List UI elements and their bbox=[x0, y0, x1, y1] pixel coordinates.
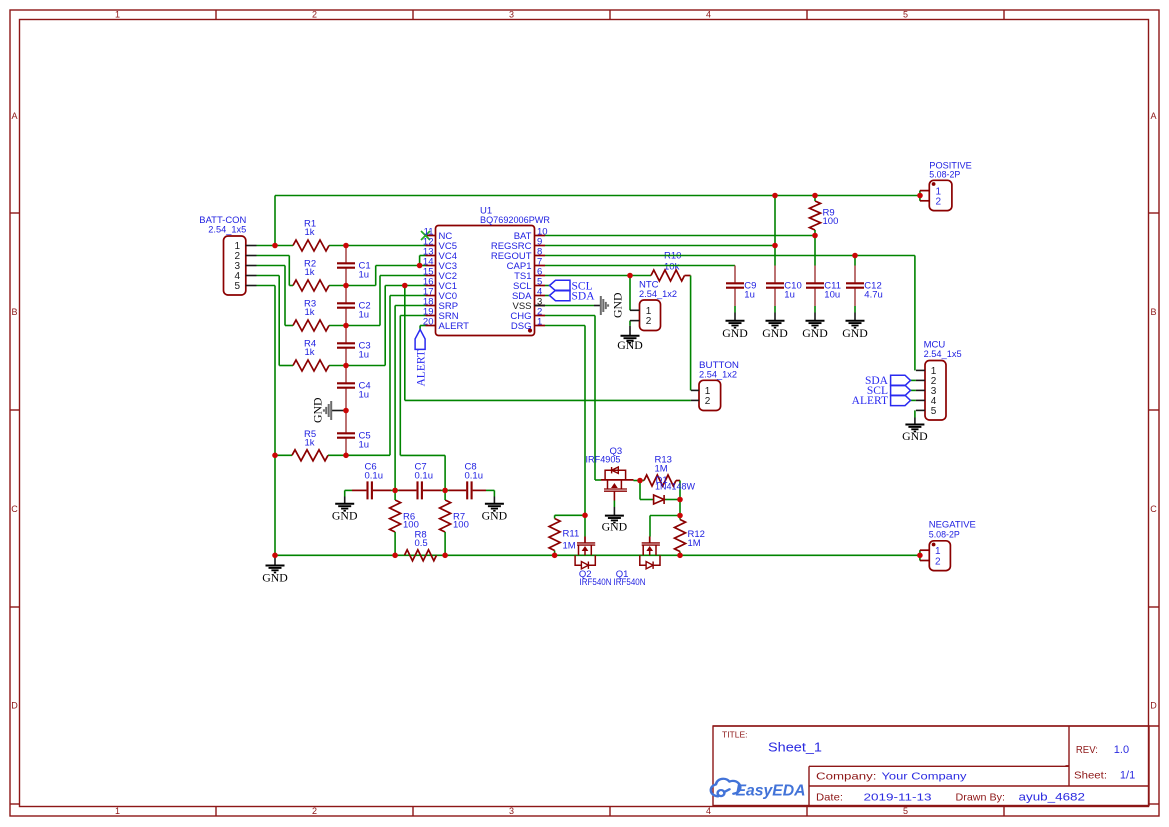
svg-text:IRF540N: IRF540N bbox=[614, 577, 646, 588]
svg-text:B: B bbox=[1150, 307, 1156, 317]
net flag SDA (MCU pin2) bbox=[911, 379, 916, 381]
wire: NTC pin2 to GND bbox=[629, 321, 631, 326]
resistor R7 100 bbox=[440, 500, 451, 532]
svg-text:5: 5 bbox=[931, 406, 937, 417]
svg-text:1k: 1k bbox=[305, 227, 315, 238]
capacitor C11 10u bbox=[806, 283, 824, 287]
svg-text:0.1u: 0.1u bbox=[415, 470, 434, 481]
title block bbox=[713, 726, 1149, 806]
svg-text:5: 5 bbox=[903, 806, 908, 816]
connector POSITIVE body bbox=[929, 180, 952, 210]
wire: Q3 drain to R13/D1 node bbox=[634, 480, 645, 482]
svg-text:100: 100 bbox=[823, 216, 839, 227]
svg-text:ALERT: ALERT bbox=[439, 321, 470, 332]
U1 pin1 marker dot bbox=[528, 328, 532, 332]
wire: BATT-CON pin2 elbow bbox=[257, 255, 290, 257]
svg-text:5.08-2P: 5.08-2P bbox=[929, 170, 960, 181]
svg-text:1u: 1u bbox=[359, 310, 370, 321]
wire: SRP row down to C6/C7 node bbox=[395, 305, 425, 307]
wire: CAP1 row U1 pin7 to C9 bbox=[545, 265, 735, 267]
svg-text:3: 3 bbox=[509, 10, 514, 20]
wire: R12 bottom bbox=[679, 552, 681, 556]
svg-text:1.0: 1.0 bbox=[1114, 744, 1129, 756]
wire: R13/D1 right node vertical bbox=[676, 480, 680, 482]
transistor Q3 IRF4905 bbox=[601, 479, 634, 481]
svg-text:10u: 10u bbox=[824, 290, 840, 301]
transistor Q1 IRF540N bbox=[642, 543, 660, 545]
capacitor C10 1u bbox=[766, 283, 784, 287]
ground: C11 bbox=[814, 313, 816, 321]
ground: NTC pin2 bbox=[629, 326, 631, 336]
wire: NEGATIVE pin tie bbox=[919, 550, 921, 560]
svg-text:1/1: 1/1 bbox=[1120, 770, 1135, 782]
svg-text:1M: 1M bbox=[563, 540, 576, 551]
wire: BATT-CON pin5 elbow down to GND rail bbox=[257, 285, 276, 287]
svg-text:GND: GND bbox=[482, 509, 508, 523]
svg-text:1u: 1u bbox=[359, 270, 370, 281]
net flag SDA (U1 pin4) bbox=[545, 295, 550, 297]
wire: R4 row / VC1 branch bbox=[279, 365, 293, 367]
svg-text:EasyEDA: EasyEDA bbox=[736, 783, 806, 800]
net flag ALERT (MCU pin4) bbox=[911, 399, 916, 401]
ground: MCU pin5 bbox=[914, 418, 916, 425]
svg-text:GND: GND bbox=[722, 326, 748, 340]
svg-text:2019-11-13: 2019-11-13 bbox=[864, 792, 932, 804]
svg-text:A: A bbox=[11, 111, 17, 121]
svg-text:BQ7692006PWR: BQ7692006PWR bbox=[480, 215, 550, 226]
wire: CHG net down to Q3 bbox=[545, 315, 595, 317]
svg-text:Your Company: Your Company bbox=[882, 771, 968, 783]
resistor R12 1M bbox=[675, 520, 686, 552]
svg-text:1k: 1k bbox=[305, 438, 315, 449]
svg-text:0.5: 0.5 bbox=[415, 538, 428, 549]
net flag SCL (U1 pin5) bbox=[545, 285, 550, 287]
resistor R3 1k bbox=[293, 320, 329, 331]
wire: REGOUT row U1 pin8 to MCU pin1 bbox=[545, 255, 915, 257]
capacitor C8 0.1u bbox=[467, 481, 471, 499]
net flag ALERT (U1 pin20) bbox=[415, 330, 425, 350]
svg-text:1k: 1k bbox=[305, 307, 315, 318]
wire: BAT row U1 pin10 to R9 bbox=[545, 235, 815, 237]
EasyEDA logo bbox=[711, 779, 741, 797]
svg-text:1: 1 bbox=[115, 10, 120, 20]
svg-text:0.1u: 0.1u bbox=[365, 470, 384, 481]
svg-text:1: 1 bbox=[115, 806, 120, 816]
svg-text:100: 100 bbox=[453, 520, 469, 531]
wire: Q1 gate link bbox=[650, 515, 680, 517]
capacitor C4 1u bbox=[337, 383, 355, 387]
resistor R10 10k bbox=[651, 270, 684, 281]
capacitor C1 1u bbox=[337, 263, 355, 267]
wire: REGSRC row U1 pin9 to C10 column bbox=[545, 245, 775, 247]
ground: Q3 source bbox=[613, 507, 615, 515]
wire: R3 row / VC2 branch bbox=[285, 325, 293, 327]
svg-text:GND: GND bbox=[332, 509, 358, 523]
svg-text:2.54_1x2: 2.54_1x2 bbox=[699, 369, 737, 380]
resistor R4 1k bbox=[293, 360, 329, 371]
U1 right pins 10-1 bbox=[535, 235, 546, 237]
svg-text:1u: 1u bbox=[359, 440, 370, 451]
svg-text:C: C bbox=[1150, 504, 1157, 514]
svg-text:ALERT: ALERT bbox=[852, 395, 888, 407]
wire: MCU pin5 elbow to GND bbox=[914, 410, 916, 417]
connector BUTTON body bbox=[699, 380, 721, 410]
ground: VSS sideways bbox=[545, 305, 594, 307]
svg-text:GND: GND bbox=[762, 326, 788, 340]
capacitor C9-C12 pins bbox=[734, 266, 736, 283]
wire: BATT-CON pin4 elbow bbox=[257, 275, 280, 277]
wire: vertical from top rail to BATT-CON pin1 bbox=[274, 196, 276, 246]
wire: GND rail bottom row bbox=[275, 554, 920, 556]
svg-text:2: 2 bbox=[936, 197, 942, 208]
diode D1 1N4148W bbox=[654, 495, 665, 504]
svg-text:Drawn By:: Drawn By: bbox=[956, 792, 1006, 804]
svg-text:1u: 1u bbox=[744, 290, 755, 301]
capacitor C6/C7/C8 red lead row bbox=[352, 489, 366, 491]
wire: C11 column top bbox=[814, 236, 816, 266]
connector MCU body bbox=[925, 361, 946, 421]
ground: battery stack mid (C4) sideways bbox=[331, 410, 346, 412]
capacitor C7 0.1u bbox=[418, 481, 422, 499]
ground: C10 bbox=[774, 313, 776, 321]
wire: D1 left link bbox=[639, 481, 641, 500]
svg-text:B: B bbox=[11, 307, 17, 317]
svg-text:1N4148W: 1N4148W bbox=[655, 482, 695, 493]
svg-text:2: 2 bbox=[312, 10, 317, 20]
wire: R11 top link bbox=[555, 514, 585, 516]
svg-text:R11: R11 bbox=[563, 528, 580, 539]
svg-text:Company:: Company: bbox=[816, 771, 877, 783]
svg-text:2: 2 bbox=[935, 556, 941, 567]
ground: C6 left bbox=[344, 497, 346, 504]
svg-text:1k: 1k bbox=[305, 267, 315, 278]
wire: ALERT pin to flag bbox=[420, 325, 425, 327]
wire: VC0 row down to R5 node bbox=[390, 295, 426, 297]
resistor R11 1M bbox=[549, 519, 560, 551]
resistor R9 100 bbox=[810, 201, 821, 230]
wire: Q3 source stub to GND bbox=[613, 501, 615, 508]
resistor R2 1k bbox=[293, 280, 329, 291]
ground: battery negative rail bbox=[274, 555, 276, 565]
ground: C9 bbox=[734, 313, 736, 321]
svg-text:GND: GND bbox=[802, 326, 828, 340]
ground: C12 bbox=[854, 313, 856, 321]
svg-text:0.1u: 0.1u bbox=[465, 470, 484, 481]
svg-text:1M: 1M bbox=[655, 463, 668, 474]
wire: C12 column top bbox=[854, 256, 856, 266]
svg-text:2.54_1x5: 2.54_1x5 bbox=[208, 224, 246, 235]
wire: PACK+ top rail bbox=[275, 195, 920, 197]
resistor R13 1M bbox=[644, 475, 676, 486]
capacitor C3 1u bbox=[337, 343, 355, 347]
svg-text:GND: GND bbox=[610, 292, 624, 318]
wire: NTC pin1 drop bbox=[629, 276, 631, 311]
svg-text:IRF540N: IRF540N bbox=[580, 577, 612, 588]
ground: C8 right bbox=[493, 497, 495, 504]
svg-text:GND: GND bbox=[902, 429, 928, 443]
svg-text:4: 4 bbox=[706, 806, 711, 816]
svg-text:REV:: REV: bbox=[1076, 744, 1098, 756]
wire: R10 right lead down to BUTTON pin1 bbox=[685, 275, 691, 277]
svg-text:ALERT: ALERT bbox=[416, 350, 428, 386]
wire: BATT-CON pin1 to R1 bbox=[257, 245, 294, 247]
wire: R11 bottom bbox=[554, 551, 556, 556]
svg-text:SDA: SDA bbox=[572, 290, 596, 302]
svg-text:D: D bbox=[1150, 701, 1157, 711]
svg-text:A: A bbox=[1150, 111, 1156, 121]
svg-text:2: 2 bbox=[646, 316, 652, 327]
net flag SCL (MCU pin3) bbox=[911, 389, 916, 391]
svg-text:C: C bbox=[11, 504, 18, 514]
svg-text:20: 20 bbox=[423, 316, 434, 327]
wire: D1 cathode link bbox=[664, 499, 680, 501]
svg-text:TITLE:: TITLE: bbox=[722, 730, 748, 740]
capacitor C12 4.7u bbox=[846, 283, 864, 287]
svg-text:4: 4 bbox=[706, 10, 711, 20]
svg-text:3: 3 bbox=[509, 806, 514, 816]
wire: R1 to C1 node to U1 VC5 bbox=[329, 245, 426, 247]
svg-text:5: 5 bbox=[235, 281, 241, 292]
connector NEGATIVE body bbox=[929, 541, 950, 571]
svg-text:1k: 1k bbox=[305, 347, 315, 358]
wire: VC1 branch to BUTTON pin2 bbox=[404, 286, 406, 401]
transistor Q2 IRF540N bbox=[577, 543, 595, 545]
wire: R5 row bbox=[275, 454, 292, 456]
svg-text:GND: GND bbox=[262, 571, 288, 585]
svg-text:2: 2 bbox=[312, 806, 317, 816]
svg-text:GND: GND bbox=[310, 397, 324, 423]
svg-text:2: 2 bbox=[705, 396, 711, 407]
resistor R1 1k bbox=[293, 240, 329, 251]
svg-text:Date:: Date: bbox=[816, 792, 843, 804]
svg-text:Sheet_1: Sheet_1 bbox=[768, 740, 822, 755]
svg-text:Sheet:: Sheet: bbox=[1074, 770, 1107, 782]
wire: C6 row green bits bbox=[345, 489, 352, 491]
connector BATT-CON body bbox=[224, 236, 246, 295]
svg-text:GND: GND bbox=[842, 326, 868, 340]
resistor R8 0.5 bbox=[405, 550, 437, 561]
svg-text:DSG: DSG bbox=[511, 321, 532, 332]
svg-text:5: 5 bbox=[903, 10, 908, 20]
op-amp U1 BQ7692006PWR body bbox=[436, 226, 535, 336]
svg-text:1u: 1u bbox=[359, 390, 370, 401]
wire: VC4/VC3 tie vertical bbox=[375, 266, 377, 286]
wire: BATT-CON pin3 elbow bbox=[257, 265, 286, 267]
capacitor C5 1u bbox=[337, 433, 355, 437]
junction dots bbox=[272, 243, 278, 249]
capacitor C6 0.1u bbox=[368, 481, 372, 499]
no-connect X on pin 11 bbox=[421, 231, 430, 240]
svg-text:4.7u: 4.7u bbox=[864, 290, 883, 301]
svg-text:1u: 1u bbox=[359, 350, 370, 361]
svg-text:1u: 1u bbox=[784, 290, 795, 301]
BATT-CON pin stubs bbox=[246, 245, 257, 247]
wire: cap C9 bottom stub bbox=[734, 306, 736, 313]
capacitor C9 1u bbox=[726, 283, 744, 287]
svg-text:ayub_4682: ayub_4682 bbox=[1019, 792, 1086, 804]
svg-text:1: 1 bbox=[537, 316, 542, 327]
capacitor column C1-C5 pins bbox=[345, 246, 347, 263]
svg-text:D: D bbox=[11, 701, 18, 711]
svg-text:GND: GND bbox=[617, 338, 643, 352]
wire: R2 row bbox=[289, 285, 293, 287]
svg-text:2.54_1x5: 2.54_1x5 bbox=[924, 349, 962, 360]
wire: POSITIVE pin tie bbox=[919, 191, 921, 201]
wire: TS1 row U1 pin6 to NTC / R10 bbox=[545, 275, 651, 277]
resistor R5 1k bbox=[292, 450, 328, 461]
wire: DSG net down to Q2 gate node bbox=[545, 325, 585, 327]
capacitor C2 1u bbox=[337, 303, 355, 307]
connector NTC body bbox=[640, 300, 661, 331]
svg-text:5.08-2P: 5.08-2P bbox=[929, 529, 960, 540]
wire: C10 column top bbox=[774, 196, 776, 266]
resistor R6 100 bbox=[390, 500, 401, 532]
wire: SRN row down across to C7/C8 node bbox=[400, 315, 425, 317]
svg-text:2.54_1x2: 2.54_1x2 bbox=[639, 289, 677, 300]
svg-text:GND: GND bbox=[602, 519, 628, 533]
svg-text:1M: 1M bbox=[688, 538, 701, 549]
U1 left pins 11-20 bbox=[426, 235, 436, 237]
svg-text:IRF4905: IRF4905 bbox=[586, 454, 621, 465]
